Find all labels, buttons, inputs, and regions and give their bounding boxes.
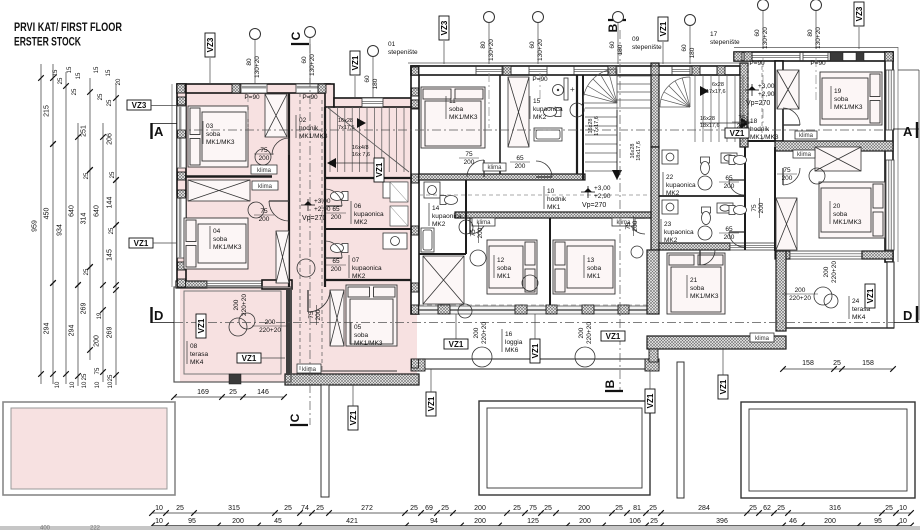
svg-text:hodnik: hodnik: [750, 126, 770, 133]
svg-text:MK1/MK3: MK1/MK3: [834, 104, 863, 111]
corridor dashes: [299, 93, 301, 374]
label 23: [660, 219, 662, 242]
svg-text:25: 25: [615, 505, 623, 512]
svg-text:09: 09: [632, 36, 640, 43]
svg-text:MK2: MK2: [354, 219, 368, 226]
svg-text:D: D: [903, 308, 912, 323]
label 22: [662, 172, 664, 195]
svg-text:MK4: MK4: [852, 314, 866, 321]
svg-text:144: 144: [107, 197, 114, 209]
svg-text:220+20: 220+20: [241, 294, 248, 316]
svg-text:10: 10: [155, 505, 163, 512]
stair09 left wall: [582, 75, 584, 180]
unit3 window t2: [803, 53, 828, 61]
svg-text:75: 75: [738, 115, 746, 122]
svg-text:15: 15: [67, 66, 73, 73]
misc circles: [255, 149, 271, 165]
bed room04: [184, 218, 248, 269]
svg-text:74: 74: [301, 505, 309, 512]
svg-text:180: 180: [617, 44, 624, 55]
svg-text:200: 200: [473, 327, 480, 338]
level unit2: [581, 186, 595, 198]
room21 top window: [730, 243, 775, 250]
bath07 bottom: [325, 279, 411, 281]
bath06/07 divider: [325, 228, 411, 230]
svg-text:P=90: P=90: [749, 60, 765, 67]
svg-text:60: 60: [609, 41, 616, 49]
svg-text:200: 200: [515, 163, 526, 170]
svg-text:80: 80: [480, 41, 487, 49]
svg-text:75: 75: [260, 208, 268, 215]
svg-text:25: 25: [82, 373, 88, 380]
svg-text:200: 200: [259, 216, 270, 223]
svg-text:145: 145: [107, 249, 114, 261]
svg-text:169: 169: [197, 389, 209, 396]
svg-text:P=90: P=90: [244, 94, 260, 101]
stair niche window: [362, 98, 383, 107]
label 02: [295, 115, 297, 138]
svg-text:16x28: 16x28: [700, 116, 715, 122]
svg-text:60: 60: [681, 44, 688, 52]
unit1 window l2: [177, 196, 186, 258]
svg-text:200: 200: [632, 220, 639, 231]
bed room05: [346, 285, 397, 346]
corridor10 top wall: [419, 174, 585, 180]
klima6: [612, 218, 635, 226]
svg-text:75: 75: [783, 167, 791, 174]
svg-text:60: 60: [529, 41, 536, 49]
apartment1 pink floor: [180, 86, 417, 382]
svg-text:14: 14: [432, 205, 440, 212]
unit1 left outer face: [171, 84, 173, 287]
svg-text:25: 25: [58, 77, 64, 84]
stair09 down arrow: [612, 170, 622, 180]
svg-text:314: 314: [81, 213, 88, 225]
door23: [729, 232, 744, 247]
svg-text:kupaonica: kupaonica: [354, 211, 384, 218]
svg-text:soba: soba: [834, 96, 848, 103]
svg-text:MK1/MK3: MK1/MK3: [213, 244, 242, 251]
svg-text:15: 15: [106, 69, 112, 76]
bed room13: [553, 240, 615, 294]
label 18: [746, 116, 748, 139]
svg-text:VZ3: VZ3: [440, 20, 449, 35]
VZ1 bottom3: [645, 389, 655, 413]
svg-text:294: 294: [44, 323, 51, 335]
unit1 window t1: [241, 84, 267, 93]
svg-text:16x 7,6: 16x 7,6: [352, 152, 370, 158]
svg-text:130+20: 130+20: [537, 39, 544, 61]
baths right wall: [744, 147, 746, 250]
svg-text:soba: soba: [497, 265, 511, 272]
svg-text:200: 200: [824, 518, 836, 525]
svg-text:25: 25: [72, 88, 78, 95]
section B line: [619, 30, 621, 390]
svg-text:soba: soba: [690, 285, 704, 292]
wardrobe03: [265, 94, 287, 137]
bed room03: [188, 106, 248, 167]
svg-text:MK2: MK2: [664, 237, 678, 244]
bench room05: [300, 370, 397, 372]
level unit3: [745, 84, 759, 96]
svg-text:640: 640: [69, 205, 76, 217]
svg-text:MK2: MK2: [352, 273, 366, 280]
svg-text:D: D: [154, 308, 163, 323]
door21: [700, 250, 715, 265]
svg-text:VZ1: VZ1: [730, 129, 745, 138]
stair17 treads: [694, 75, 696, 142]
svg-text:+2,90: +2,90: [594, 193, 611, 200]
rooms12-13 top wall: [455, 212, 651, 218]
svg-text:10: 10: [82, 381, 88, 388]
svg-text:146: 146: [257, 389, 269, 396]
svg-text:200: 200: [233, 299, 240, 310]
svg-text:10: 10: [899, 518, 907, 525]
section C line: [309, 44, 311, 425]
svg-text:P=90: P=90: [302, 94, 318, 101]
svg-text:21: 21: [690, 277, 698, 284]
VZ1 stair17: [725, 128, 749, 138]
unit2 window t3: [574, 67, 608, 75]
room20 bottom wall: [775, 251, 790, 259]
svg-text:25: 25: [84, 268, 90, 275]
svg-text:75: 75: [625, 222, 632, 230]
svg-text:25: 25: [108, 374, 114, 381]
wardrobe12: [423, 256, 464, 304]
hall/room19 wall: [775, 61, 783, 141]
svg-text:klima: klima: [487, 165, 502, 171]
label 04: [209, 226, 211, 249]
door20: [783, 168, 800, 185]
label 12: [493, 255, 495, 278]
wall 03/04: [177, 175, 272, 178]
bottom dim row2: [152, 525, 911, 527]
wardrobe04 wide: [188, 180, 250, 201]
pool right: [741, 402, 915, 498]
marker A right: [916, 122, 918, 138]
svg-text:VZ1: VZ1: [351, 55, 360, 70]
svg-text:VZ1: VZ1: [531, 343, 540, 358]
svg-text:62: 62: [763, 505, 771, 512]
VZ3 left: [127, 100, 151, 110]
klima1: [251, 165, 277, 174]
svg-text:23: 23: [664, 221, 672, 228]
svg-text:130+20: 130+20: [254, 56, 261, 78]
VZ1 terasa08 b: [237, 353, 261, 363]
svg-text:19: 19: [97, 312, 103, 319]
wardrobe21: [815, 147, 861, 171]
unit3 window r2: [886, 160, 894, 250]
svg-text:60: 60: [754, 29, 761, 37]
label 06: [350, 201, 352, 224]
svg-text:75: 75: [470, 229, 477, 237]
bath14 right wall: [465, 180, 467, 254]
svg-text:P=90: P=90: [810, 60, 826, 67]
unit2 window t4: [672, 67, 690, 75]
svg-text:MK1: MK1: [497, 273, 511, 280]
svg-text:MK6: MK6: [505, 347, 519, 354]
svg-text:640: 640: [94, 205, 101, 217]
svg-text:222: 222: [90, 526, 101, 530]
svg-text:25: 25: [110, 171, 116, 178]
svg-text:10: 10: [55, 381, 61, 388]
svg-text:65: 65: [725, 175, 733, 182]
marker A left: [150, 123, 152, 139]
label 05: [350, 322, 352, 345]
svg-text:01: 01: [388, 41, 396, 48]
VZ1 bottom4: [718, 375, 728, 399]
svg-text:396: 396: [716, 518, 728, 525]
label 10: [543, 186, 545, 209]
svg-text:106: 106: [629, 518, 641, 525]
svg-text:soba: soba: [206, 131, 220, 138]
svg-text:158: 158: [862, 360, 874, 367]
bed room21: [667, 253, 725, 314]
svg-text:45: 45: [274, 518, 282, 525]
svg-text:220+20: 220+20: [481, 322, 488, 344]
svg-text:25: 25: [649, 505, 657, 512]
svg-text:200: 200: [259, 155, 270, 162]
svg-text:17: 17: [710, 31, 718, 38]
svg-text:65: 65: [516, 155, 524, 162]
svg-text:MK1/MK3: MK1/MK3: [449, 114, 478, 121]
window centerlines: [247, 93, 249, 128]
svg-text:VZ1: VZ1: [719, 379, 728, 394]
svg-text:VZ1: VZ1: [646, 393, 655, 408]
svg-text:02: 02: [299, 117, 307, 124]
label 16: [501, 329, 503, 352]
door04: [269, 201, 289, 221]
wardrobe19: [777, 70, 799, 109]
svg-text:15: 15: [76, 72, 82, 79]
terasa24 right parapet: [887, 262, 894, 328]
unit1 step wall: [325, 84, 334, 107]
svg-text:130+20: 130+20: [309, 54, 316, 76]
svg-text:stepenište: stepenište: [632, 44, 662, 51]
terasa08 circles: [229, 318, 247, 336]
VZ3 top-left: [205, 33, 215, 57]
label 08: [186, 341, 188, 364]
svg-text:25: 25: [833, 360, 841, 367]
svg-text:400: 400: [40, 526, 51, 530]
svg-text:VZ1: VZ1: [134, 239, 149, 248]
stair01 arrow1: [357, 118, 366, 128]
top circle leaders: [254, 40, 256, 85]
svg-text:200: 200: [331, 214, 342, 221]
svg-text:315: 315: [228, 505, 240, 512]
svg-text:18: 18: [750, 118, 758, 125]
svg-text:P=90: P=90: [532, 76, 548, 83]
bath15: [553, 85, 564, 96]
svg-text:200: 200: [477, 227, 484, 238]
shaft rects unit1: [390, 182, 408, 202]
corridor wall x289: [288, 93, 290, 287]
svg-text:220+20: 220+20: [259, 327, 281, 334]
stair01 bottom wall: [325, 177, 411, 179]
svg-text:200: 200: [265, 319, 276, 326]
bath07: [331, 244, 349, 253]
svg-text:200: 200: [823, 266, 830, 277]
svg-text:MK1/MK3: MK1/MK3: [750, 134, 779, 141]
svg-text:VZ1: VZ1: [242, 354, 257, 363]
wardrobe04 tall: [276, 231, 289, 283]
svg-text:220+20: 220+20: [789, 295, 811, 302]
svg-text:200: 200: [94, 335, 101, 347]
svg-text:stepenište: stepenište: [710, 39, 740, 46]
door22: [729, 180, 744, 195]
bed room20: [819, 182, 885, 238]
svg-text:10: 10: [70, 381, 76, 388]
svg-text:VZ1: VZ1: [866, 288, 875, 303]
unit3 right outer face: [897, 47, 899, 262]
svg-text:200: 200: [315, 309, 322, 320]
svg-text:94: 94: [430, 518, 438, 525]
VZ1 loggia m: [530, 339, 540, 363]
svg-text:269: 269: [107, 327, 114, 339]
label 20: [829, 201, 831, 224]
svg-text:+3,00: +3,00: [314, 198, 331, 205]
svg-text:soba: soba: [213, 236, 227, 243]
svg-text:65: 65: [332, 206, 340, 213]
bed room19: [820, 72, 882, 125]
svg-text:80: 80: [246, 58, 253, 66]
label 11: [445, 96, 447, 119]
svg-text:13: 13: [587, 257, 595, 264]
svg-text:+2,90: +2,90: [314, 206, 331, 213]
unit1 top wall: [177, 84, 330, 93]
svg-text:VZ1: VZ1: [427, 396, 436, 411]
dim 158-25-158: [783, 368, 893, 370]
klima4: [472, 218, 495, 226]
svg-text:+: +: [570, 85, 575, 94]
klima2: [252, 181, 278, 190]
svg-text:25: 25: [650, 518, 658, 525]
svg-text:MK2: MK2: [666, 190, 680, 197]
svg-text:+3,00: +3,00: [758, 83, 775, 90]
svg-text:19: 19: [834, 88, 842, 95]
VZ3 top-right: [854, 2, 864, 26]
label 14: [428, 203, 430, 226]
svg-text:130+20: 130+20: [815, 27, 822, 49]
door11: [467, 160, 484, 177]
bed room11: [421, 87, 485, 148]
label 21: [686, 275, 688, 298]
svg-text:15: 15: [94, 66, 100, 73]
svg-text:kupaonica: kupaonica: [533, 106, 563, 113]
bottom dim row1: [152, 512, 911, 514]
junction blocks: [177, 84, 185, 93]
svg-text:934: 934: [57, 224, 64, 236]
unit3 right wall: [885, 52, 893, 262]
stair17 arrow2: [741, 118, 750, 128]
stair17 arrow1: [700, 86, 709, 96]
pool middle: [479, 401, 650, 495]
room04 bottom window: [207, 281, 262, 288]
svg-text:65: 65: [725, 226, 733, 233]
svg-text:294: 294: [69, 325, 76, 337]
terasa08 outline: [174, 287, 291, 382]
svg-text:MK1/MK3: MK1/MK3: [299, 133, 328, 140]
label 19: [830, 86, 832, 109]
svg-text:7x17,5: 7x17,5: [338, 125, 355, 131]
svg-text:25: 25: [544, 505, 552, 512]
klima9: [750, 333, 774, 342]
svg-text:25: 25: [441, 505, 449, 512]
svg-text:MK1/MK3: MK1/MK3: [833, 219, 862, 226]
VZ1 stair01 top: [350, 51, 360, 75]
svg-text:60: 60: [364, 75, 371, 83]
party wall 1-2: [411, 66, 419, 314]
svg-text:69: 69: [425, 505, 433, 512]
svg-text:05: 05: [354, 324, 362, 331]
bath22: [701, 157, 710, 175]
svg-text:VZ1: VZ1: [197, 318, 206, 333]
svg-text:25: 25: [777, 505, 785, 512]
svg-text:B: B: [603, 379, 617, 388]
svg-text:klima: klima: [258, 184, 273, 190]
klima5: [483, 163, 506, 171]
VZ1 bath06: [374, 158, 384, 182]
svg-text:MK1: MK1: [547, 204, 561, 211]
unit3 top wall: [734, 52, 893, 61]
svg-text:16x4/8: 16x4/8: [352, 145, 369, 151]
wardrobe20: [776, 198, 797, 250]
svg-text:65: 65: [332, 258, 340, 265]
svg-text:Vp=270: Vp=270: [582, 202, 606, 209]
svg-text:25: 25: [109, 227, 115, 234]
unit2 window t2: [529, 67, 547, 75]
svg-text:959: 959: [32, 220, 39, 232]
svg-text:10: 10: [547, 188, 555, 195]
VZ1 bottom2: [426, 392, 436, 416]
svg-text:272: 272: [361, 505, 373, 512]
stair17/hall wall: [740, 63, 748, 147]
door06: [325, 189, 342, 206]
svg-text:75: 75: [751, 204, 758, 212]
svg-text:220+20: 220+20: [831, 261, 838, 283]
stair01 arrow2: [327, 158, 336, 168]
klima8: [793, 150, 815, 158]
svg-text:soba: soba: [587, 265, 601, 272]
svg-text:22: 22: [666, 174, 674, 181]
loggia parapet: [419, 359, 659, 369]
room21 bottom wall: [647, 336, 786, 349]
unit1 window t2: [296, 84, 320, 93]
room04 bottom wall: [176, 281, 207, 288]
svg-text:25: 25: [107, 99, 113, 106]
hall18 bottom: [748, 140, 775, 142]
VZ1 terasa08: [196, 314, 206, 338]
svg-text:75: 75: [529, 505, 537, 512]
svg-text:284: 284: [698, 505, 710, 512]
terasa24 bottom: [786, 327, 894, 329]
svg-text:24: 24: [852, 298, 860, 305]
svg-text:20: 20: [833, 203, 841, 210]
svg-text:25: 25: [885, 505, 893, 512]
svg-text:200: 200: [474, 518, 486, 525]
svg-text:VZ3: VZ3: [206, 37, 215, 52]
svg-text:95: 95: [188, 518, 196, 525]
svg-text:25: 25: [98, 93, 104, 100]
svg-text:200: 200: [232, 518, 244, 525]
wall 19/20: [775, 141, 893, 151]
svg-text:klima: klima: [797, 152, 812, 158]
svg-text:kupaonica: kupaonica: [432, 213, 462, 220]
svg-text:75: 75: [260, 147, 268, 154]
bath23 bottom wall: [659, 243, 730, 250]
svg-text:MK1/MK3: MK1/MK3: [354, 340, 383, 347]
svg-text:MK2: MK2: [432, 221, 446, 228]
